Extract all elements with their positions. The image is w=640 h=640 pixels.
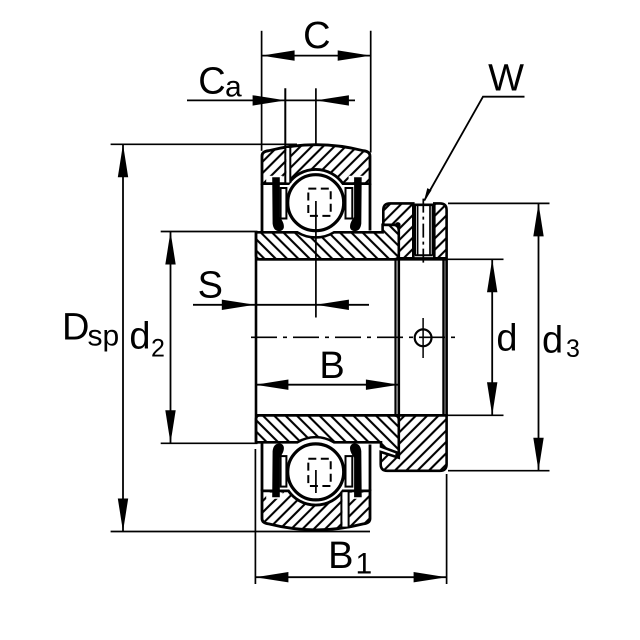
dim Dsp line [122, 144, 124, 531]
main centreline [251, 336, 458, 338]
seal bottom-left [272, 444, 284, 498]
collar right face front-view edge [442, 259, 444, 415]
eccentric lip dot bottom [395, 452, 400, 457]
dim B1 line [255, 576, 446, 578]
outer ring left face lip top [261, 184, 264, 232]
outer ring right face lip top [369, 184, 372, 231]
inner ring right face front-view edge [394, 261, 396, 415]
set screw centreline [422, 199, 424, 264]
svg-text:d: d [129, 316, 150, 358]
collar right face line [445, 259, 448, 415]
ball top [288, 175, 344, 231]
bore line bottom [256, 414, 447, 417]
eccentric lip dot top [395, 222, 401, 228]
svg-text:a: a [225, 71, 242, 104]
cage section rects top [281, 188, 287, 219]
svg-text:B: B [319, 345, 344, 387]
inner ring bottom section [256, 415, 399, 453]
dim d3 line [538, 203, 540, 470]
seal notch bottom-right [349, 493, 366, 499]
dim d2 extension lines [161, 231, 258, 233]
ball centre plane line top [315, 201, 317, 318]
svg-text:C: C [303, 15, 330, 57]
svg-text:d: d [496, 318, 517, 360]
dim C line [262, 55, 371, 57]
outer ring left face lip bottom [261, 444, 264, 491]
dim d extension lines [447, 258, 504, 260]
dim d3 extension lines [448, 202, 550, 204]
seal top-left [272, 177, 284, 231]
ball bottom [288, 444, 344, 500]
inner ring right face line [397, 259, 400, 415]
svg-text:2: 2 [151, 335, 165, 363]
dim B line [255, 384, 399, 386]
inner ring left face line [255, 232, 258, 442]
svg-text:C: C [198, 61, 225, 103]
dim Ca extension lines [284, 88, 286, 183]
screw hole circle (front view) [415, 329, 432, 346]
seal notch bottom-left [266, 493, 283, 499]
set screw [415, 205, 433, 256]
seal top-right [350, 177, 362, 231]
dim S line [193, 304, 369, 306]
dim d2 line [170, 232, 172, 444]
svg-text:1: 1 [356, 548, 373, 581]
bore line top [256, 258, 447, 261]
locking collar top section (right of screw hole) [434, 203, 446, 258]
svg-text:D: D [62, 307, 89, 349]
cage hidden (dashed) box top [308, 189, 330, 216]
inner ring top section [256, 225, 399, 259]
lubrication slot bottom [342, 492, 348, 526]
cage section rects bottom [281, 456, 287, 487]
outer ring bottom section [262, 491, 370, 530]
svg-text:3: 3 [566, 335, 580, 363]
svg-text:sp: sp [88, 320, 120, 353]
dim Dsp extension lines [111, 143, 297, 145]
outer ring top section [262, 145, 370, 184]
dim C extension lines [261, 31, 263, 151]
dim Ca line [187, 99, 355, 101]
svg-text:B: B [328, 535, 353, 577]
svg-text:d: d [542, 320, 563, 362]
seal notch top-right [349, 176, 366, 182]
ball centre plane line bottom [315, 470, 317, 493]
svg-text:S: S [198, 265, 223, 307]
cage hidden (dashed) box bottom [308, 459, 330, 486]
seal bottom-right [350, 444, 362, 498]
dim d line [491, 259, 493, 415]
locking collar top section (left of screw hole) [383, 203, 413, 258]
W leader [424, 97, 524, 201]
svg-text:W: W [488, 58, 524, 100]
dim B1 extension lines [254, 449, 256, 584]
seal notch top-left [266, 176, 283, 182]
lubrication slot top [286, 148, 289, 183]
outer ring right face lip bottom [369, 445, 372, 491]
locking collar bottom section [381, 415, 447, 471]
